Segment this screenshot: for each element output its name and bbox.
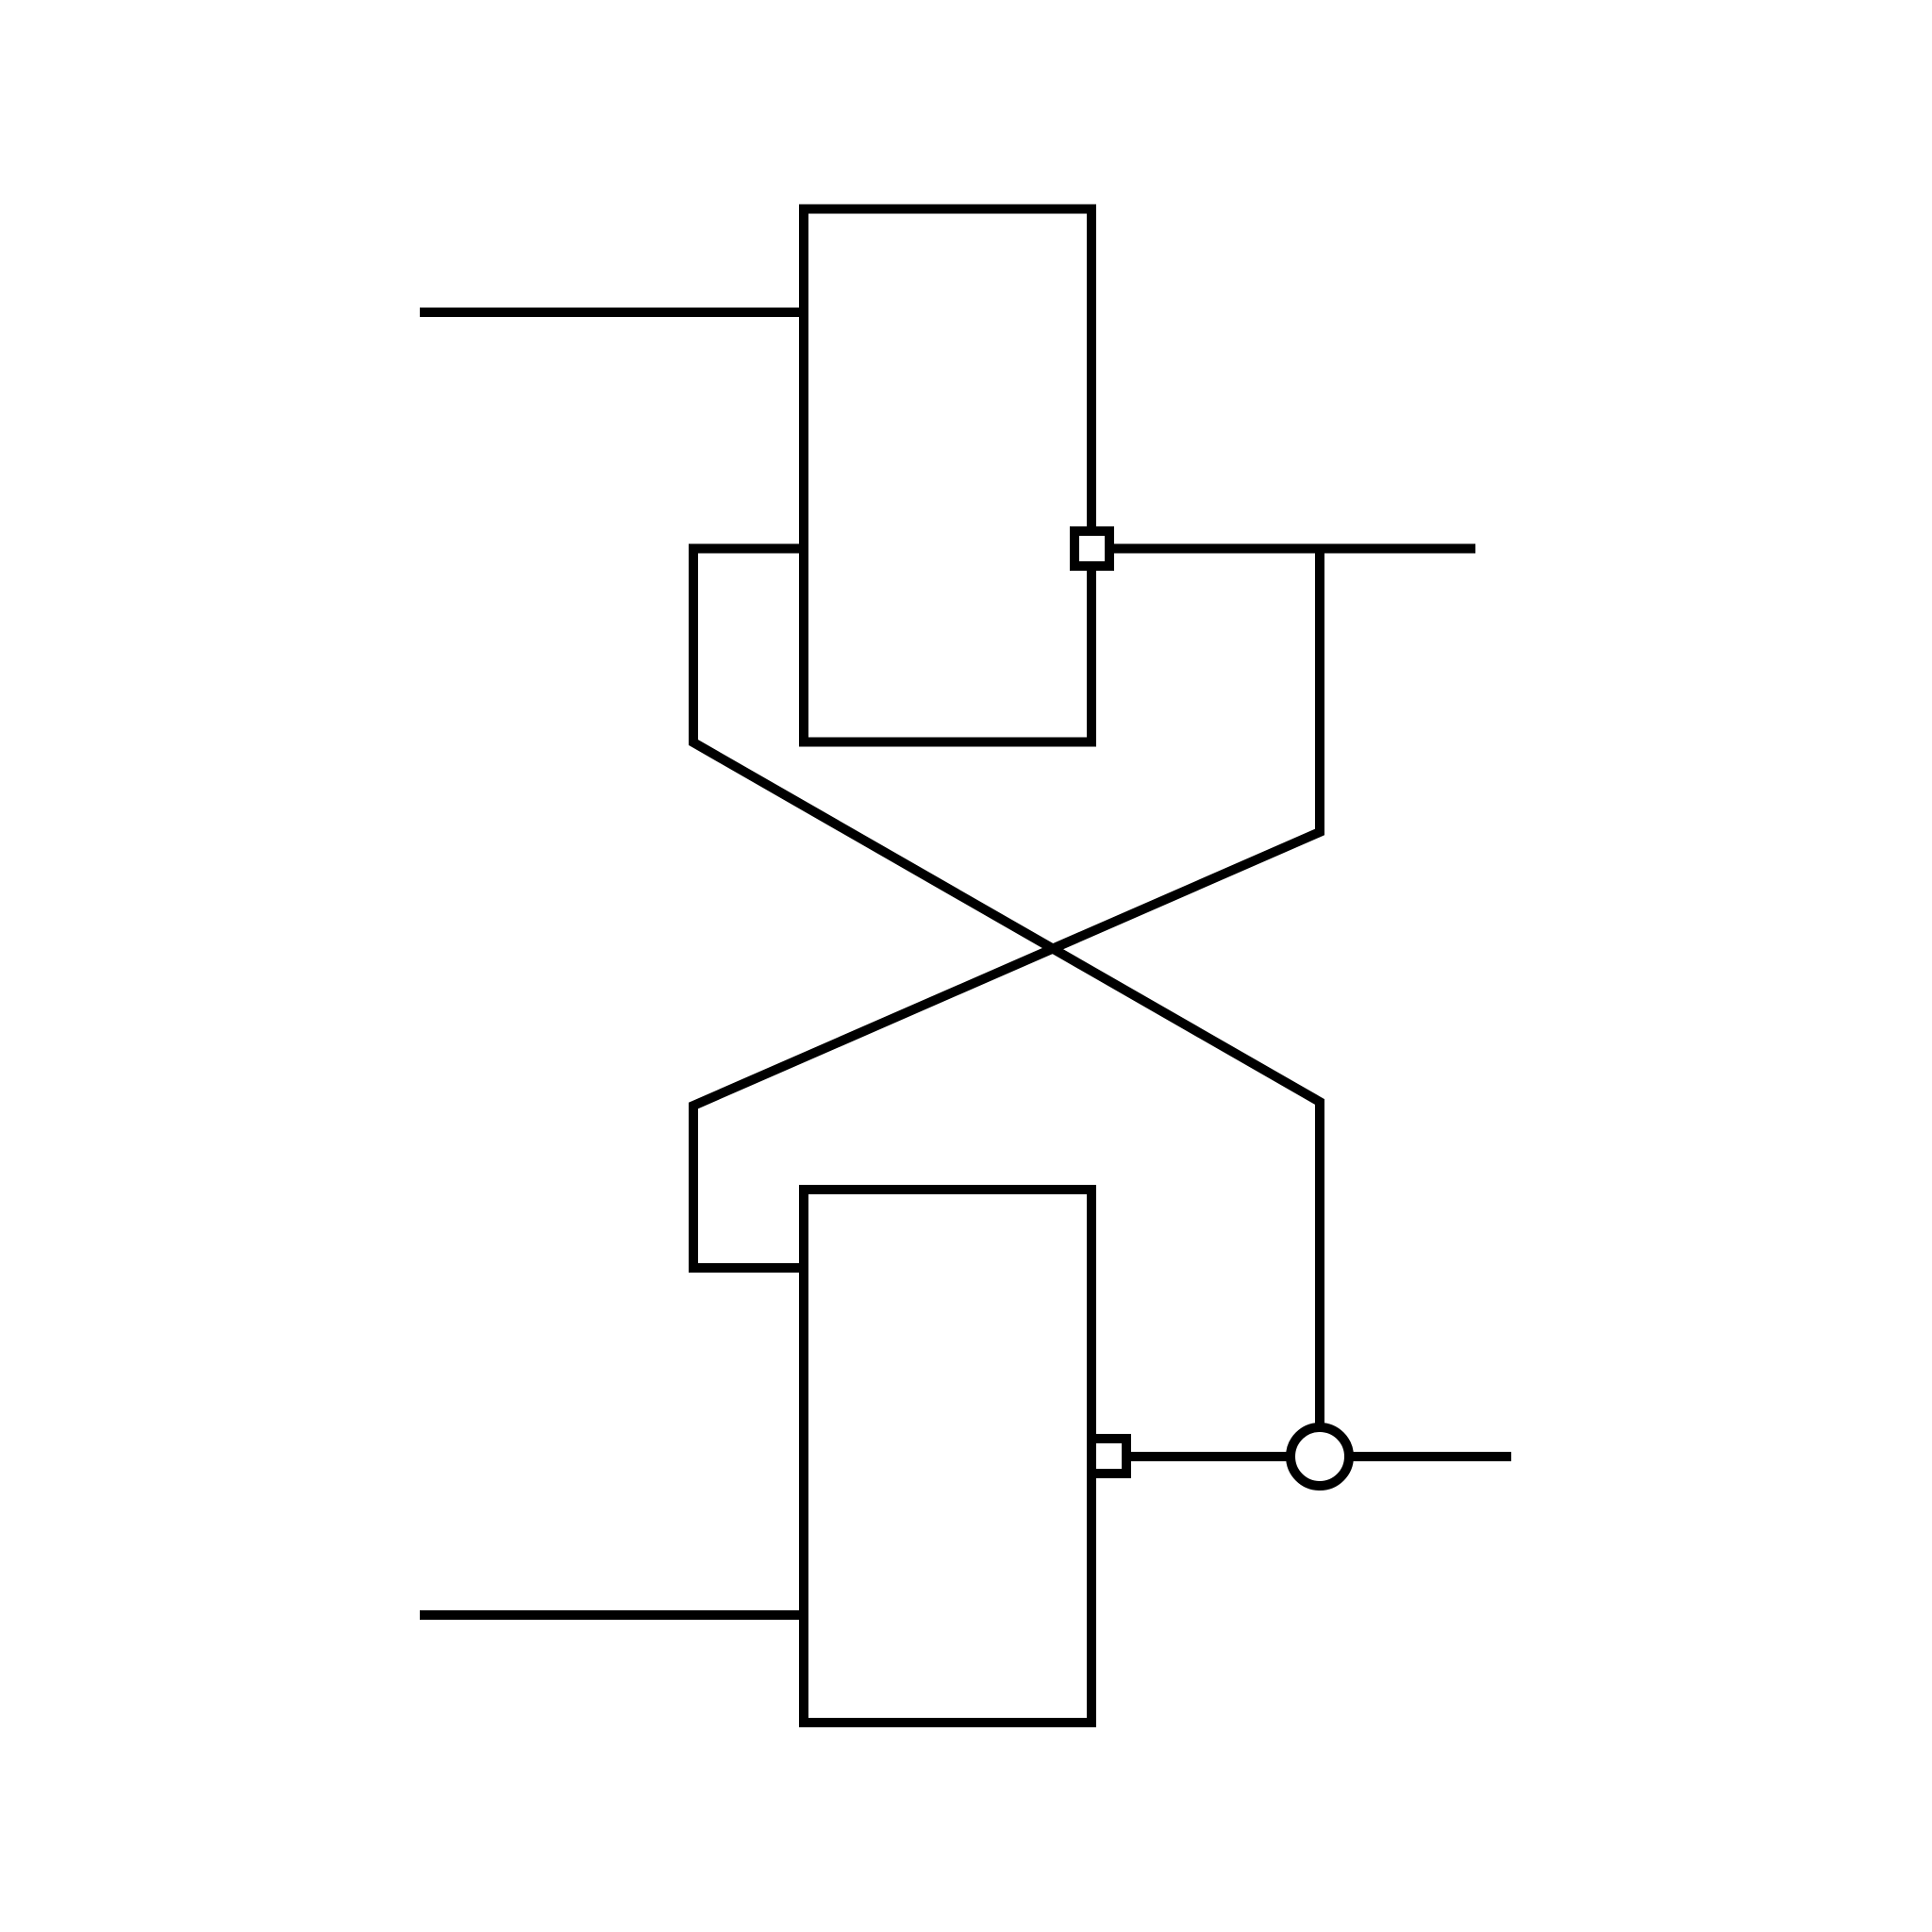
inverter bubble (negation circle at feedback junction) [1291,1427,1349,1486]
wire R input (bottom-left horizontal into U2) [420,1610,804,1620]
gate U1 (top block) [804,209,1091,742]
pin square U2 output (right of edge) [1091,1439,1126,1474]
wire Q output (right of U1 pin square) [1091,544,1475,554]
wire S input (top-left horizontal into U1) [420,308,804,317]
pin square U1 output (postponed-output symbol on right edge) [1074,531,1109,566]
gate U2 (bottom block) [804,1190,1091,1723]
wire Q-bar output (right of bubble) [1126,1452,1511,1461]
wire Q feedback: junction down, diagonal, down, right into U2 input [693,549,1320,1269]
wire U1 lower input with feedback: left, down, diagonal, down to bubble node [693,549,1320,1428]
